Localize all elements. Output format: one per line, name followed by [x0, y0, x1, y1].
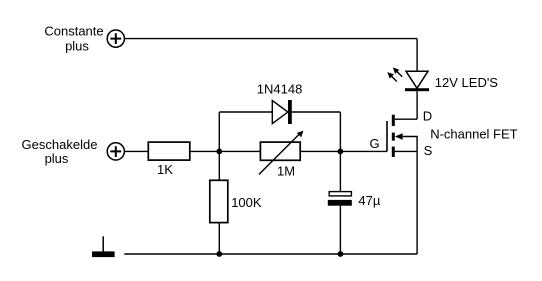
svg-text:N-channel FET: N-channel FET	[430, 127, 517, 142]
resistor R3 100K	[210, 180, 228, 222]
wire: R1 to node A	[190, 150, 220, 152]
channel bar drain	[392, 115, 395, 126]
wire: R3 to ground rail	[218, 223, 220, 254]
junction node A	[216, 149, 222, 155]
ground	[92, 236, 115, 257]
channel bar body	[392, 133, 395, 141]
wire: Geschakelde plus to R1	[124, 150, 148, 152]
terminal: Geschakelde plus (+)	[107, 143, 124, 160]
wire: diode branch down to node B	[339, 112, 341, 151]
svg-text:S: S	[424, 143, 433, 158]
wire: node A to potentiometer	[219, 150, 260, 152]
svg-text:G: G	[370, 136, 380, 151]
junction node B	[338, 149, 344, 155]
wire: top rail down to LED anode	[416, 39, 418, 72]
wire: node B down to capacitor	[339, 151, 341, 191]
terminal: Constante plus (+)	[107, 30, 124, 47]
wire: capacitor to ground rail	[339, 206, 341, 254]
wire: node A up to diode branch	[218, 112, 220, 151]
svg-text:Geschakelde: Geschakelde	[22, 137, 98, 152]
svg-text:plus: plus	[65, 39, 89, 54]
drain lead	[395, 118, 417, 120]
svg-text:plus: plus	[45, 151, 69, 166]
svg-text:Constante: Constante	[44, 23, 103, 38]
channel bar source	[392, 147, 395, 157]
gate line	[386, 121, 388, 151]
body arrow	[395, 133, 403, 140]
LED light-emission arrow 1	[393, 67, 402, 76]
svg-text:1M: 1M	[277, 163, 295, 178]
svg-text:12V LED'S: 12V LED'S	[435, 75, 499, 90]
source lead	[395, 150, 417, 152]
diode D2 1N4148	[272, 100, 292, 124]
resistor R1 1K	[148, 142, 190, 160]
potentiometer R2 1M	[259, 131, 303, 175]
wire: Constante plus to LED (top rail)	[124, 38, 417, 40]
wire: FET source down to ground rail	[416, 151, 418, 254]
wire: potentiometer to node B	[300, 150, 340, 152]
svg-text:1N4148: 1N4148	[257, 82, 303, 97]
junction: R3 at ground rail	[216, 251, 222, 257]
wire: diode branch left segment	[219, 111, 272, 113]
label: Geschakelde plus	[22, 137, 98, 166]
wire: diode branch right segment	[292, 111, 341, 113]
LED D1: 12V LED'S	[405, 71, 429, 91]
label: Constante plus	[44, 23, 103, 53]
wire: node B to gate	[340, 150, 387, 152]
transistor Q1 N-channel FET	[387, 115, 417, 157]
capacitor C1 47µ	[328, 192, 352, 206]
junction: capacitor at ground rail	[338, 251, 344, 257]
LED light-emission arrow 2	[387, 72, 396, 81]
wire: node A down to R3	[218, 151, 220, 180]
svg-text:47µ: 47µ	[358, 193, 380, 208]
wire: LED cathode to FET drain	[416, 91, 418, 119]
svg-text:1K: 1K	[157, 162, 173, 177]
wire: ground rail (bottom)	[124, 253, 417, 255]
svg-text:D: D	[423, 109, 432, 124]
svg-text:100K: 100K	[231, 195, 262, 210]
